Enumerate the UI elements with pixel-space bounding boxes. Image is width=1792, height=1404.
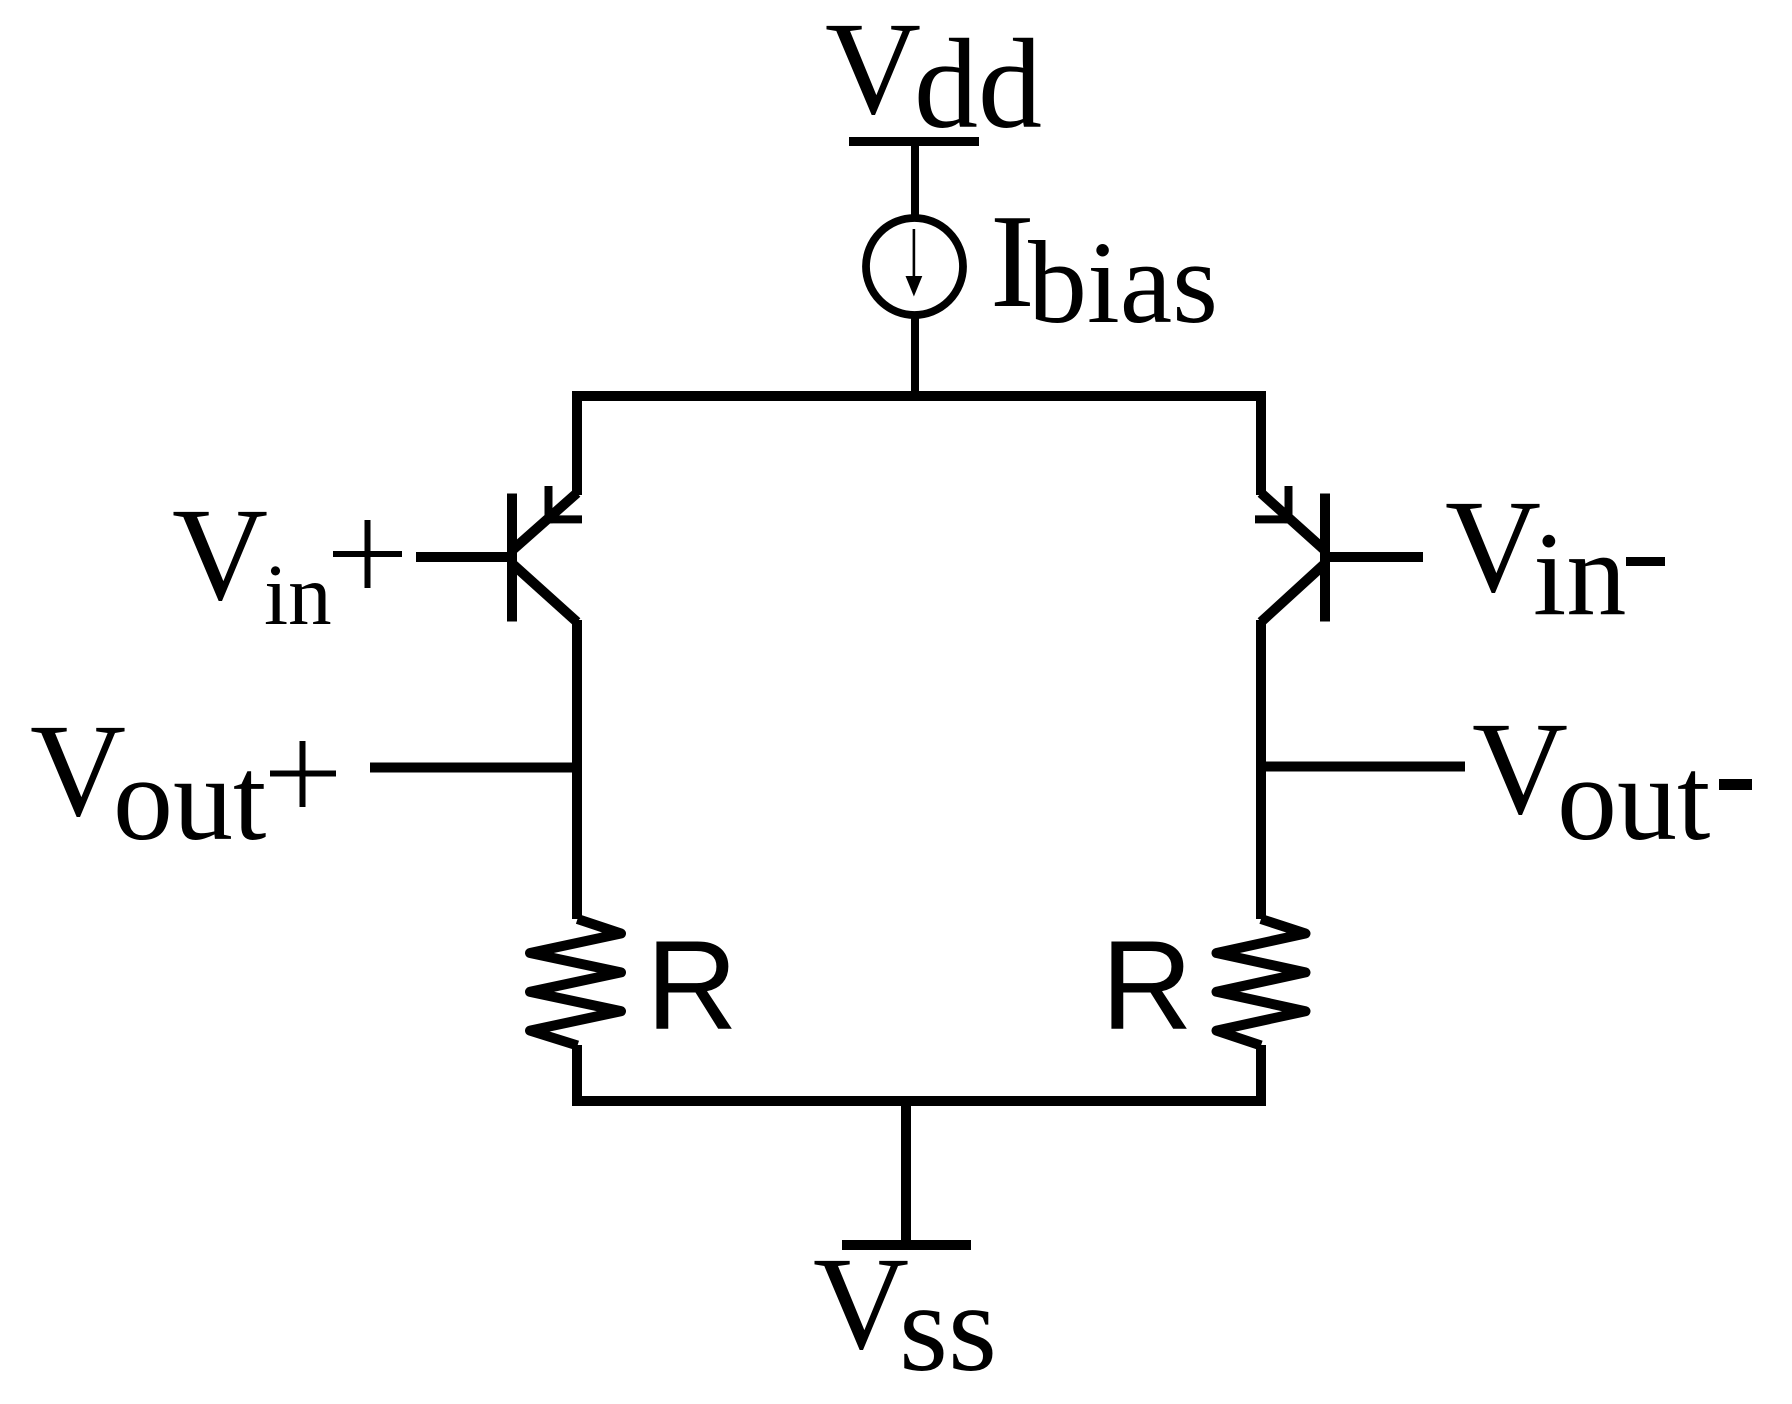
wire Vout- stub	[1261, 762, 1465, 772]
svg-text:bias: bias	[1028, 217, 1218, 348]
node label Vin+	[172, 480, 402, 643]
svg-text:R: R	[646, 914, 738, 1056]
node label Vout-	[1472, 694, 1752, 865]
svg-text:in: in	[264, 546, 332, 643]
svg-text:in: in	[1533, 507, 1626, 640]
svg-text:V: V	[813, 1229, 909, 1377]
node label Vdd	[825, 0, 1042, 155]
node label Vss	[813, 1229, 997, 1398]
wire right collector down to resistor	[1256, 620, 1266, 919]
svg-text:out: out	[113, 732, 266, 865]
Vdd power rail symbol	[849, 137, 979, 146]
wire right emitter drop	[1256, 393, 1266, 495]
svg-text:out: out	[1557, 732, 1710, 865]
wire bottom rail to Vss bar	[901, 1101, 911, 1245]
wire Vin+ base lead	[416, 552, 512, 562]
wire current source bottom to top rail	[911, 315, 919, 397]
Vss power rail symbol	[842, 1240, 971, 1250]
svg-text:V: V	[1472, 694, 1568, 842]
wire left resistor to bottom rail	[572, 1045, 582, 1101]
value label Ibias	[990, 187, 1218, 348]
wire left collector down to resistor	[572, 620, 582, 919]
transistor Q2 right PNP	[1255, 486, 1325, 622]
wire Vout+ stub	[370, 763, 577, 773]
wire top rail (emitter tail rail)	[577, 391, 1261, 401]
wire right resistor to bottom rail	[1256, 1045, 1266, 1101]
svg-text:V: V	[30, 696, 126, 844]
svg-text:R: R	[1101, 914, 1193, 1056]
wire bottom rail	[577, 1096, 1261, 1106]
node label Vin-	[1445, 472, 1665, 640]
resistor R left zigzag	[530, 919, 621, 1046]
transistor Q1 left PNP	[512, 486, 582, 622]
wire Vin- base lead	[1325, 552, 1423, 562]
wire Vdd bar to current source top	[911, 142, 919, 220]
resistor R right zigzag	[1217, 919, 1306, 1046]
svg-text:V: V	[172, 480, 268, 628]
svg-text:ss: ss	[899, 1259, 997, 1398]
svg-text:V: V	[1445, 472, 1541, 620]
svg-text:dd: dd	[914, 13, 1042, 155]
svg-text:V: V	[825, 0, 921, 142]
wire left emitter drop	[572, 393, 582, 495]
node label Vout+	[30, 696, 336, 865]
current source Ibias (circle with down arrow)	[866, 218, 963, 315]
